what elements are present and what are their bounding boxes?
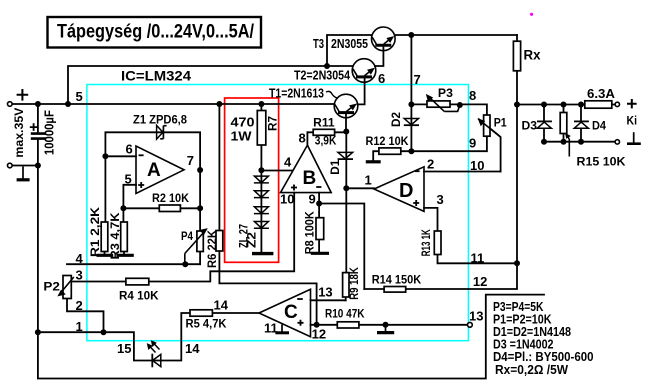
svg-text:5: 5 [76,89,83,104]
wire R7 zener column [260,104,262,252]
svg-text:R7: R7 [266,116,280,131]
node P3 wiper junction [457,102,463,108]
node C pin12 junction [314,322,320,328]
svg-text:11: 11 [264,321,278,336]
op-amp U1B triangle [281,145,332,193]
opamp C minus [297,298,303,300]
svg-text:15: 15 [117,341,131,356]
svg-text:Z1 ZPD6,8: Z1 ZPD6,8 [133,113,187,127]
wire output sense column [516,105,518,264]
wire T2 emitter to T3 base [375,47,384,67]
svg-text:1W: 1W [231,129,253,144]
svg-text:9: 9 [469,136,476,151]
svg-text:R2 10K: R2 10K [152,191,189,205]
node T2 base riser junction [324,63,330,69]
wire B pin10 / node 3 [71,193,294,282]
wire node 1 / LED loop / node 14 [38,313,259,361]
ground R8 [311,252,329,255]
wire D3 stems [543,105,545,142]
ground zener chain [252,252,273,255]
potentiometer P4 body [197,231,203,252]
wire P1 wiper [479,119,501,171]
node D4 bottom junction [578,139,584,145]
svg-text:P2: P2 [43,280,60,294]
svg-text:B: B [303,168,317,189]
ground R12 [366,160,381,163]
svg-text:3: 3 [76,267,83,282]
svg-text:P4: P4 [181,229,193,243]
svg-text:R11: R11 [313,115,335,129]
resistor R5 4,7K [190,310,212,316]
wire A pin5 [123,185,136,209]
svg-text:1: 1 [76,319,83,334]
wire P2 lower to node1 [67,299,104,333]
resistor R11 3,9K [313,129,334,135]
transistor T2 internals [356,75,372,78]
transistor T3 circle [372,27,396,51]
svg-text:10: 10 [280,192,294,207]
potentiometer P1 wiper arrow [481,121,501,137]
op-amp U1C triangle [259,289,311,336]
wire C pin12 / R10 row [311,324,468,326]
wire ground input terminal [10,165,38,167]
wire R12 row [373,151,411,160]
node D output junction [343,185,349,191]
svg-text:T1=2N1613: T1=2N1613 [269,86,324,101]
svg-text:13: 13 [318,285,332,300]
wire A feedback loop [105,132,200,208]
wire R15 bottom [563,105,565,142]
ground R10 row [385,325,387,332]
node A pin6 junction [102,153,108,159]
svg-text:4: 4 [76,251,84,266]
wire output fuse line [517,104,615,106]
wire collector feed top [68,66,353,104]
wire node 11 [438,255,518,264]
svg-text:11: 11 [471,250,485,265]
node 4 P4 wiper junction [182,261,188,267]
node Rx bottom junction [514,102,520,108]
wire D pin2 / node 10 [424,171,501,173]
svg-text:2: 2 [427,157,434,172]
wire D4 stems [580,105,582,142]
transistor T1 circle [334,94,358,118]
resistor R6 22K [216,231,223,252]
wire P3 row [411,104,487,115]
diode D3 [537,122,551,128]
svg-text:6.3A: 6.3A [587,86,616,101]
wire node 12 [364,263,517,289]
svg-text:R4 10K: R4 10K [119,288,159,302]
svg-text:8: 8 [469,88,476,103]
svg-text:R9 18K: R9 18K [347,267,361,300]
node 1 left junction [35,329,41,335]
opamp C plus [298,320,304,326]
node R15 top junction [561,102,567,108]
wire C pin13 [311,299,346,301]
svg-text:6: 6 [126,142,133,157]
svg-text:2N3055: 2N3055 [331,37,368,51]
ground R3 [116,254,133,257]
wire capacitor branch and bottom border [38,104,544,379]
zener Z1 ZPD6,8 [157,125,163,139]
wire R2 row [123,207,200,209]
diode D4 [574,122,588,128]
node R15 bottom junction [561,139,567,145]
wire T3 emitter to Rx [395,34,517,36]
node rail left riser junction [65,101,71,107]
wire supply rail node 5 [10,103,334,105]
resistor R2 10K [159,205,180,212]
ground input left [22,167,24,179]
wire B output riser [306,132,308,145]
svg-text:P3: P3 [438,86,453,100]
svg-text:D1: D1 [328,159,342,174]
transistor T3 internals [375,44,391,47]
ground output Ki [633,132,635,142]
capacitor 10000uF plates [31,134,47,139]
svg-text:9: 9 [309,192,316,207]
diode D2 [404,119,418,125]
wire B pin9 to R14 [319,193,364,289]
node D3 top junction [541,102,547,108]
wire R3 branch [122,208,125,254]
terminal input plus [8,102,13,107]
wire R11 row [307,131,346,133]
opamp B minus [316,186,321,188]
node R2 left junction [120,205,126,211]
wire P4 branch [199,208,201,264]
svg-text:P1: P1 [494,116,507,130]
fuse 6.3A [585,101,612,108]
svg-text:Rx=0,2Ω /5W: Rx=0,2Ω /5W [495,363,568,377]
wire R6 bottom to C+ [219,104,316,325]
op-amp U1D triangle [374,167,424,212]
wire D out to R9 [346,188,374,300]
svg-text:R6 22K: R6 22K [205,230,219,268]
node D3 bottom junction [541,139,547,145]
svg-text:10: 10 [470,158,484,173]
svg-text:D4: D4 [592,118,606,132]
node T1 base junction [343,129,349,135]
svg-text:Tápegység /0...24V,0...5A/: Tápegység /0...24V,0...5A/ [57,22,255,43]
wire R8 branch [318,204,320,253]
resistor Rx body [513,41,520,71]
potentiometer P2 wiper arrow [60,277,74,293]
svg-text:470: 470 [231,115,255,130]
title box [48,17,262,48]
node T3 emitter junction [408,32,414,38]
resistor R4 10K [126,278,149,285]
wire T3 collector riser [327,35,372,66]
wire output minus line [544,141,615,143]
svg-text:T2=2N3054: T2=2N3054 [294,68,351,83]
svg-text:10000µF: 10000µF [42,110,57,155]
svg-text:R13 1K: R13 1K [419,229,433,256]
svg-text:R12 10K: R12 10K [366,134,409,148]
svg-text:8: 8 [299,131,306,146]
svg-text:T3: T3 [313,37,324,51]
svg-text:3: 3 [437,192,444,207]
magenta speck [530,13,533,16]
op-amp U1A triangle [136,146,184,194]
svg-text:7: 7 [187,153,194,168]
ground C pin11 [281,325,283,332]
terminal node 13 [468,322,473,327]
svg-text:A: A [147,160,161,181]
resistor R12 10K [379,148,401,154]
svg-text:14: 14 [185,341,200,356]
svg-text:3,9K: 3,9K [315,134,337,148]
node A pin7 junction [197,167,203,173]
svg-text:4: 4 [284,155,292,170]
svg-text:13: 13 [469,309,483,324]
plus sign capacitor [30,123,38,131]
opamp B plus [291,185,297,191]
node R6 top junction [216,101,222,107]
plus sign input [17,89,29,101]
opamp D plus [413,200,419,206]
node R7 top junction [258,101,264,107]
resistor R10 47K [337,322,359,328]
node 1 P2 junction [101,329,107,335]
svg-text:D3: D3 [522,118,538,132]
svg-text:R14 150K: R14 150K [372,273,422,287]
resistor R8 100K [316,218,324,240]
opamp A minus [139,154,144,156]
cyan board outline [87,85,469,341]
wire A pin6 [105,155,136,157]
resistor R9 18K [343,273,349,297]
terminal output minus [615,140,619,144]
resistor R7 470 1W [257,111,266,146]
red box around R7/zener chain [225,98,279,262]
node R10 ground junction [383,322,389,328]
wire B pin4 [261,170,292,172]
resistor R14 150K [384,287,406,293]
svg-text:R1 2,2K: R1 2,2K [88,207,102,257]
node R2 right junction [197,205,203,211]
diode D1 [338,152,353,158]
ground R1 [97,254,114,257]
open terminals [8,102,620,327]
wire node 4 [67,263,200,265]
pointer squiggle T1 [326,91,337,98]
LED indicator diode [153,354,161,366]
wire D pin3 [424,208,438,231]
opamp A plus [138,182,144,188]
svg-text:D: D [399,180,413,202]
node ground terminal junction [35,163,41,169]
potentiometer P3 wiper arrow [429,97,460,111]
svg-text:14: 14 [214,297,229,312]
wire Rx column [516,35,518,105]
potentiometer P3 body [427,101,450,107]
resistor R15 10K [560,113,567,134]
terminal output plus [615,102,619,106]
svg-text:Rx: Rx [524,48,541,63]
svg-text:12: 12 [473,274,487,289]
node D2 top junction [408,101,414,107]
resistor R3 4,7K [121,222,128,252]
terminal input minus [8,163,13,168]
svg-text:2: 2 [76,298,83,313]
svg-text:Ki: Ki [627,114,638,128]
wire T1 base column / D1 [345,113,347,188]
svg-text:C: C [284,302,298,323]
plus sign output [627,99,637,108]
node cap top junction [35,101,41,107]
R15 pointer [567,135,570,156]
wire sense column x411 [410,35,412,151]
node D4 top junction [578,102,584,108]
zener chain Z2 / ZL27 diodes [254,176,269,183]
potentiometer P4 wiper arrow [185,232,205,265]
svg-text:R5 4,7K: R5 4,7K [186,317,227,331]
node 9 R12 junction [408,148,414,154]
node 11 junction [514,260,520,266]
svg-text:R10 47K: R10 47K [325,306,365,320]
wire R1 branch [104,156,107,254]
svg-text:5: 5 [125,171,132,186]
svg-text:R3 4,7K: R3 4,7K [108,212,122,259]
wire node 9 [411,136,487,151]
svg-text:7: 7 [414,72,421,87]
resistor R13 1K [434,231,441,255]
svg-text:R15 10K: R15 10K [577,155,626,169]
wire T1 emitter to T2 base [358,77,365,104]
svg-text:IC=LM324: IC=LM324 [121,68,191,84]
transistor T2 circle [352,59,376,83]
svg-text:max.35V: max.35V [12,108,26,158]
node B pin9 junction [316,201,322,207]
svg-text:Z2: Z2 [245,232,259,248]
svg-text:D2: D2 [389,112,403,127]
transistor T1 internals [338,111,354,114]
potentiometer P2 body [63,276,71,299]
svg-text:1: 1 [365,173,372,188]
svg-text:6: 6 [378,71,385,86]
svg-text:R8 100K: R8 100K [303,211,317,254]
node zener top junction [258,167,264,173]
resistor R1 2,2K [101,222,108,252]
potentiometer P1 body [484,115,490,136]
svg-text:12: 12 [312,327,326,342]
opamp D minus [415,170,420,172]
